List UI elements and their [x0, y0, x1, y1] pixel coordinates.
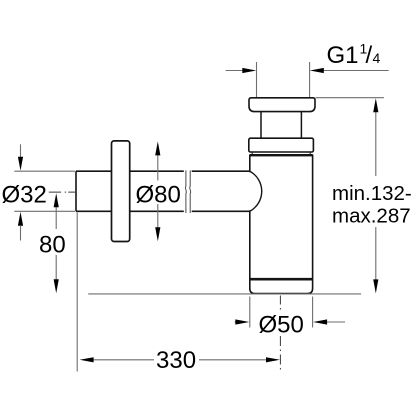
dimension min/max line: [375, 111, 377, 281]
dimension 330 line: [93, 359, 268, 361]
svg-text:330: 330: [156, 347, 196, 374]
neck: [261, 112, 301, 139]
dimension Ø80 bottom arrow: [155, 227, 160, 241]
pipe dome end inside body: [250, 171, 262, 211]
svg-text:4: 4: [373, 50, 381, 66]
dimension 80 line: [55, 207, 57, 281]
dimension line G1 1/4 left arrow: [226, 68, 257, 73]
dimension Ø80 top arrow: [155, 141, 160, 155]
extension line flange top right: [316, 97, 384, 99]
dimension min/max bottom arrow: [373, 279, 378, 293]
bottom seam: [250, 278, 313, 281]
top flange: [249, 98, 315, 112]
svg-text:max.287: max.287: [332, 204, 411, 227]
collar ring: [249, 138, 314, 152]
dimension Ø32 bottom arrow: [20, 226, 22, 241]
pipe centerline: [49, 191, 76, 193]
gap in body left edge where pipe enters: [248, 172, 251, 210]
pipe break symbol: [185, 170, 190, 213]
dimension Ø50 right arrow: [326, 321, 345, 323]
trap body: [250, 155, 313, 293]
dimension line G1 1/4 right arrow: [310, 68, 389, 73]
body top seam: [250, 154, 313, 156]
svg-text:Ø80: Ø80: [136, 181, 181, 208]
dimension 330 right arrow: [266, 357, 280, 362]
dimension 80 bottom arrow: [54, 279, 59, 293]
dimension min/max top arrow: [373, 98, 378, 112]
label G1 1/4: [327, 41, 381, 70]
dimension Ø32 top arrow: [20, 144, 22, 158]
extension lines Ø50: [250, 297, 313, 328]
wall flange: [112, 141, 130, 242]
trap centerline below body: [279, 296, 281, 373]
extension line wall face: [76, 213, 78, 372]
dimension Ø80 line: [157, 152, 159, 230]
inlet tailpipe G1 1/4: [257, 62, 310, 98]
dimension 80 top arrow: [54, 193, 59, 207]
svg-text:/: /: [366, 42, 373, 69]
dimension 330 left arrow: [80, 357, 94, 362]
svg-text:Ø50: Ø50: [259, 311, 304, 338]
svg-text:80: 80: [39, 232, 66, 259]
dimension Ø50 left arrow: [235, 321, 237, 323]
svg-text:G1: G1: [327, 42, 359, 69]
extension lines Ø32: [14, 171, 75, 211]
svg-text:min.132-: min.132-: [332, 182, 412, 205]
bottom reference line: [88, 293, 361, 295]
pipe: [76, 171, 250, 211]
svg-text:Ø32: Ø32: [2, 181, 47, 208]
